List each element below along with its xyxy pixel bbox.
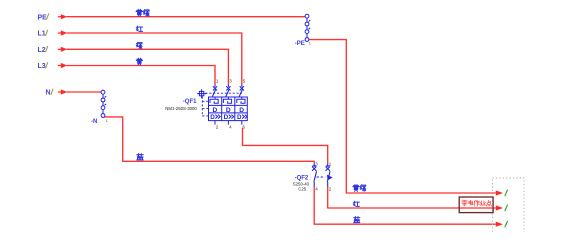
live working point text <box>462 200 492 206</box>
wire label huanglv right <box>353 185 366 192</box>
breaker QF2 release arrow <box>327 175 333 181</box>
node N/ label <box>46 89 54 97</box>
svg-text:-N: -N <box>91 119 97 125</box>
output arrow lan <box>496 222 503 227</box>
svg-text:N: N <box>46 90 51 97</box>
breaker QF1 thermal release symbols <box>210 97 245 104</box>
breaker QF2 mechanical link <box>317 176 326 178</box>
svg-text:3: 3 <box>229 78 232 83</box>
wire L2 <box>67 49 229 85</box>
breaker QF1 operator handle <box>197 89 207 98</box>
wire QF1 pin6 to QF2 pin1 <box>243 128 328 163</box>
node L2/ label <box>38 46 48 54</box>
wire QF2 pin4 blue output <box>314 187 496 225</box>
svg-text:1: 1 <box>106 119 108 123</box>
breaker QF1 I> release symbols <box>213 107 245 114</box>
wire label huanglv top <box>136 9 149 16</box>
source arrow L3 <box>58 63 68 68</box>
svg-text:PE: PE <box>38 14 48 21</box>
svg-text:-QF1: -QF1 <box>183 99 197 105</box>
output slash hong <box>505 205 508 212</box>
svg-text:2: 2 <box>329 186 332 191</box>
svg-text:D: D <box>224 114 229 121</box>
svg-text:D: D <box>237 114 242 121</box>
wire label huang L3 <box>136 58 142 65</box>
node PE/ label <box>38 13 49 21</box>
breaker QF1 3-pole contacts <box>212 85 244 97</box>
breaker QF1 trip unit box <box>209 97 248 121</box>
wire label lv L2 <box>137 42 142 48</box>
node L3/ label <box>38 62 48 70</box>
svg-text:5: 5 <box>243 78 246 83</box>
svg-text:2: 2 <box>216 125 219 130</box>
svg-text:D: D <box>213 107 218 114</box>
source arrow N <box>58 89 68 94</box>
svg-text:L1: L1 <box>38 31 46 38</box>
output arrow hong <box>496 205 503 210</box>
svg-text:L2: L2 <box>38 47 46 54</box>
wire label lan right <box>354 217 360 223</box>
breaker QF2 2-pole contacts <box>312 163 330 186</box>
output slash huanglv <box>505 190 508 197</box>
svg-text:4: 4 <box>315 186 318 191</box>
output slash lan <box>505 221 508 228</box>
source arrow PE <box>58 14 68 19</box>
svg-text:1: 1 <box>216 78 219 83</box>
wire label hong L1 <box>137 26 143 31</box>
svg-text:-QF2: -QF2 <box>295 175 309 181</box>
breaker QF1 bottom stubs <box>215 121 242 125</box>
wire PE to right column <box>309 40 496 193</box>
wire N <box>67 91 102 93</box>
live working point box <box>459 197 493 213</box>
source arrow L2 <box>58 47 68 52</box>
terminal strip -N <box>101 90 106 117</box>
terminal strip -PE <box>305 14 310 41</box>
wire L1 <box>67 33 242 85</box>
svg-text:D: D <box>239 107 244 114</box>
svg-text:NM1-250S-3000: NM1-250S-3000 <box>165 106 197 111</box>
breaker QF1 mechanical link <box>202 93 242 116</box>
breaker QF1 I>> release symbols <box>210 114 247 121</box>
wire label hong right <box>354 201 360 206</box>
svg-text:4: 4 <box>229 125 232 130</box>
dashed consumer boundary box <box>493 178 525 238</box>
wire PE <box>67 16 306 18</box>
svg-text:1: 1 <box>309 42 311 46</box>
svg-text:L3: L3 <box>38 63 46 70</box>
wire QF2 pin2 red output <box>328 187 496 209</box>
wire L3 <box>67 66 216 86</box>
svg-text:C25: C25 <box>298 186 306 191</box>
wire N to QF2 pin3 <box>104 117 314 163</box>
svg-text:D: D <box>210 114 215 121</box>
svg-text:-PE: -PE <box>295 41 305 47</box>
svg-text:D: D <box>226 107 231 114</box>
output arrow huanglv <box>496 190 503 195</box>
wire label lan N <box>137 154 143 160</box>
source arrow L1 <box>58 30 68 35</box>
svg-text:6: 6 <box>243 125 246 130</box>
node L1/ label <box>38 30 48 38</box>
